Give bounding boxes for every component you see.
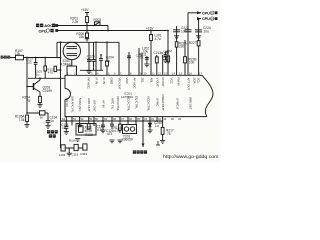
- svg-text:2.2k: 2.2k: [72, 20, 78, 24]
- svg-text:10u: 10u: [204, 29, 210, 33]
- svg-text:1u: 1u: [155, 124, 159, 128]
- svg-text:SEL: SEL: [141, 78, 145, 84]
- svg-text:SCL: SCL: [197, 78, 201, 84]
- svg-text:4.7u: 4.7u: [155, 37, 161, 41]
- svg-text:4.5MHz: 4.5MHz: [61, 62, 72, 66]
- svg-text:LA76810: LA76810: [121, 95, 133, 99]
- svg-text:4.7k: 4.7k: [114, 129, 120, 133]
- svg-text:75: 75: [167, 132, 171, 136]
- svg-text:VID OUT: VID OUT: [118, 78, 122, 90]
- svg-text:FM IN: FM IN: [177, 78, 181, 86]
- svg-text:56: 56: [40, 116, 44, 120]
- svg-text:EQ CTRL: EQ CTRL: [135, 96, 139, 109]
- svg-text:10k: 10k: [162, 55, 168, 59]
- svg-text:+15V: +15V: [81, 8, 89, 12]
- svg-text:503H: 503H: [85, 129, 93, 133]
- svg-text:C3199: C3199: [43, 89, 53, 93]
- svg-text:4.7u: 4.7u: [97, 128, 103, 132]
- svg-text:R227: R227: [189, 41, 197, 45]
- svg-text:AF VCC: AF VCC: [133, 78, 137, 90]
- svg-text:100: 100: [189, 61, 195, 65]
- svg-text:C216: C216: [136, 54, 143, 58]
- svg-text:V OUT: V OUT: [156, 78, 160, 87]
- svg-text:103: 103: [27, 60, 32, 64]
- svg-text:5.5M (AF): 5.5M (AF): [78, 98, 82, 111]
- svg-text:470: 470: [48, 71, 53, 75]
- svg-text:CPU: CPU: [202, 11, 210, 15]
- svg-text:R128: R128: [85, 133, 93, 137]
- svg-text:VCC: VCC: [170, 78, 174, 85]
- svg-text:http://www.go-gddq.com: http://www.go-gddq.com: [163, 154, 219, 159]
- svg-text:CPU: CPU: [39, 28, 47, 33]
- svg-text:R116: R116: [69, 139, 76, 143]
- svg-text:VCC: VCC: [125, 78, 129, 85]
- svg-text:22k: 22k: [79, 35, 85, 39]
- svg-text:SW APC FIL: SW APC FIL: [71, 96, 75, 113]
- svg-text:AGC: AGC: [44, 23, 53, 28]
- svg-text:CPU: CPU: [202, 17, 210, 21]
- svg-text:220: 220: [179, 45, 185, 49]
- svg-text:12k: 12k: [15, 52, 21, 56]
- svg-text:C115: C115: [72, 152, 79, 156]
- svg-text:1u: 1u: [36, 72, 40, 76]
- svg-text:SYNC: SYNC: [156, 98, 160, 107]
- svg-text:30p: 30p: [87, 58, 93, 62]
- svg-text:SIF IN: SIF IN: [65, 98, 69, 107]
- svg-text:1u: 1u: [107, 59, 111, 63]
- svg-text:GND: GND: [110, 78, 114, 86]
- svg-text:AF IN: AF IN: [102, 100, 106, 108]
- svg-text:L102: L102: [59, 153, 66, 157]
- svg-text:1u: 1u: [62, 126, 66, 130]
- svg-text:7.5k: 7.5k: [18, 118, 24, 122]
- svg-text:+15V: +15V: [146, 27, 154, 31]
- svg-text:ABL: ABL: [150, 78, 154, 84]
- svg-text:1u: 1u: [51, 119, 55, 123]
- svg-text:473: 473: [107, 132, 113, 136]
- svg-text:R203: R203: [94, 18, 102, 22]
- svg-text:SIF OUT: SIF OUT: [93, 100, 97, 112]
- svg-text:AFT OUT: AFT OUT: [187, 78, 191, 91]
- svg-text:75: 75: [26, 99, 30, 103]
- svg-text:236050: 236050: [122, 138, 133, 142]
- svg-text:IF IN: IF IN: [95, 78, 99, 85]
- svg-text:VIDEO OUT: VIDEO OUT: [161, 94, 165, 111]
- svg-text:IF IN: IF IN: [102, 78, 106, 85]
- svg-text:R OUT: R OUT: [161, 78, 165, 88]
- svg-text:SYNC S: SYNC S: [176, 98, 180, 109]
- svg-text:AUD OUT: AUD OUT: [87, 98, 91, 112]
- svg-text:RF AGC: RF AGC: [87, 78, 91, 90]
- svg-text:100: 100: [181, 29, 187, 33]
- svg-text:VCO CTRL: VCO CTRL: [116, 96, 120, 112]
- svg-text:R119: R119: [81, 152, 88, 156]
- svg-text:APC FIL: APC FIL: [111, 98, 115, 110]
- svg-text:VCO CTRL: VCO CTRL: [147, 96, 151, 112]
- svg-text:WIN DET: WIN DET: [189, 97, 193, 110]
